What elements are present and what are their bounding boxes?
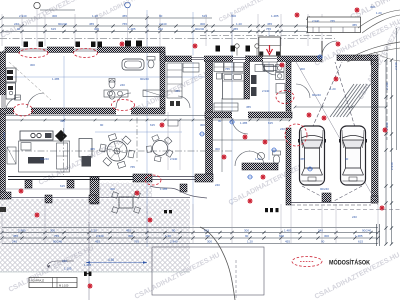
svg-text:2.940: 2.940 <box>2 132 6 140</box>
svg-text:300: 300 <box>50 228 55 232</box>
svg-text:1.485: 1.485 <box>271 14 279 18</box>
svg-text:1.20: 1.20 <box>247 239 253 243</box>
svg-text:MÓDOSÍTÁSOK: MÓDOSÍTÁSOK <box>329 258 370 267</box>
svg-text:1.485: 1.485 <box>284 228 292 232</box>
svg-text:765: 765 <box>266 27 271 31</box>
svg-text:615: 615 <box>358 239 363 243</box>
svg-text:2.940: 2.940 <box>18 228 26 232</box>
svg-text:300: 300 <box>200 123 205 127</box>
svg-text:300: 300 <box>94 27 99 31</box>
svg-text:240: 240 <box>280 127 285 131</box>
svg-text:90/240: 90/240 <box>40 157 49 161</box>
svg-text:455: 455 <box>300 157 305 161</box>
svg-text:240: 240 <box>14 22 19 26</box>
svg-text:765: 765 <box>122 22 127 26</box>
svg-text:300: 300 <box>231 14 236 18</box>
svg-text:455: 455 <box>126 228 131 232</box>
svg-text:240: 240 <box>352 215 357 219</box>
svg-text:2.940: 2.940 <box>385 122 389 130</box>
svg-text:300: 300 <box>110 187 115 191</box>
svg-text:300: 300 <box>370 5 375 9</box>
svg-text:455: 455 <box>267 22 272 26</box>
svg-text:1.485: 1.485 <box>240 121 248 125</box>
svg-text:300: 300 <box>52 14 57 18</box>
svg-text:2.940: 2.940 <box>262 89 270 93</box>
svg-text:615: 615 <box>60 184 65 188</box>
svg-text:1.20: 1.20 <box>92 14 98 18</box>
svg-text:765: 765 <box>134 239 139 243</box>
svg-text:1.20: 1.20 <box>165 234 171 238</box>
svg-text:1.20: 1.20 <box>330 87 336 91</box>
svg-text:90/240: 90/240 <box>140 77 149 81</box>
svg-text:90: 90 <box>218 119 222 123</box>
svg-text:90/240: 90/240 <box>312 93 321 97</box>
svg-text:90/240: 90/240 <box>58 22 68 26</box>
svg-text:2.940: 2.940 <box>385 82 389 90</box>
svg-text:240: 240 <box>158 27 163 31</box>
svg-text:90: 90 <box>100 123 104 127</box>
svg-text:765: 765 <box>54 234 59 238</box>
svg-text:90/240: 90/240 <box>320 187 329 191</box>
svg-text:90: 90 <box>172 228 176 232</box>
svg-text:615: 615 <box>202 14 207 18</box>
svg-text:615: 615 <box>279 234 284 238</box>
svg-text:1.20: 1.20 <box>376 11 382 15</box>
svg-text:1.485: 1.485 <box>128 27 136 31</box>
svg-text:1.485: 1.485 <box>160 187 168 191</box>
svg-text:240: 240 <box>12 239 17 243</box>
svg-text:90/240: 90/240 <box>53 239 63 243</box>
svg-text:300: 300 <box>30 63 35 67</box>
svg-text:455: 455 <box>122 14 127 18</box>
svg-text:455: 455 <box>13 234 18 238</box>
svg-text:300: 300 <box>200 22 205 26</box>
svg-text:1.20: 1.20 <box>91 228 97 232</box>
svg-text:455: 455 <box>285 239 290 243</box>
svg-text:455: 455 <box>95 239 100 243</box>
svg-text:90: 90 <box>345 157 349 161</box>
svg-text:1.105: 1.105 <box>64 267 72 271</box>
svg-text:300: 300 <box>207 239 212 243</box>
svg-text:2.940: 2.940 <box>170 239 178 243</box>
svg-text:1.485: 1.485 <box>52 77 60 81</box>
svg-text:90: 90 <box>245 234 249 238</box>
svg-text:300: 300 <box>62 259 67 263</box>
svg-text:4.50: 4.50 <box>108 258 114 262</box>
svg-text:300: 300 <box>244 228 249 232</box>
svg-text:90: 90 <box>321 239 325 243</box>
svg-text:765: 765 <box>130 165 135 169</box>
svg-text:2.940: 2.940 <box>312 19 320 23</box>
svg-text:M 1:100: M 1:100 <box>59 284 69 288</box>
svg-text:ALAPRAJZ: ALAPRAJZ <box>31 279 45 283</box>
svg-text:90: 90 <box>17 27 21 31</box>
svg-text:455: 455 <box>175 89 180 93</box>
svg-text:240: 240 <box>120 83 125 87</box>
svg-text:240: 240 <box>318 228 323 232</box>
svg-text:455: 455 <box>205 234 210 238</box>
svg-text:455: 455 <box>89 22 94 26</box>
svg-text:1.20: 1.20 <box>236 22 242 26</box>
svg-text:1.485: 1.485 <box>355 234 363 238</box>
svg-text:615: 615 <box>268 121 273 125</box>
svg-text:455: 455 <box>90 147 95 151</box>
svg-text:2.940: 2.940 <box>394 62 398 70</box>
svg-text:1.485: 1.485 <box>84 263 92 267</box>
svg-text:300: 300 <box>300 67 305 71</box>
svg-text:615: 615 <box>204 228 209 232</box>
svg-text:300: 300 <box>128 234 133 238</box>
svg-text:615: 615 <box>150 123 155 127</box>
svg-text:765: 765 <box>330 19 335 23</box>
svg-text:1.20: 1.20 <box>255 157 261 161</box>
svg-text:2.940: 2.940 <box>170 157 178 161</box>
svg-text:455: 455 <box>352 23 357 27</box>
svg-text:90: 90 <box>159 14 163 18</box>
svg-text:2.940: 2.940 <box>96 234 104 238</box>
svg-text:300: 300 <box>215 147 220 151</box>
svg-text:2.940: 2.940 <box>19 14 27 18</box>
svg-text:2.940: 2.940 <box>159 22 167 26</box>
svg-text:240: 240 <box>215 183 220 187</box>
svg-text:455: 455 <box>233 27 238 31</box>
svg-text:90/240: 90/240 <box>195 27 205 31</box>
svg-text:2.940: 2.940 <box>390 162 394 170</box>
svg-text:300: 300 <box>324 234 329 238</box>
svg-text:615: 615 <box>51 27 56 31</box>
svg-text:765: 765 <box>225 67 230 71</box>
svg-text:455: 455 <box>246 105 251 109</box>
svg-text:90/240: 90/240 <box>362 228 372 232</box>
svg-text:455: 455 <box>60 119 65 123</box>
